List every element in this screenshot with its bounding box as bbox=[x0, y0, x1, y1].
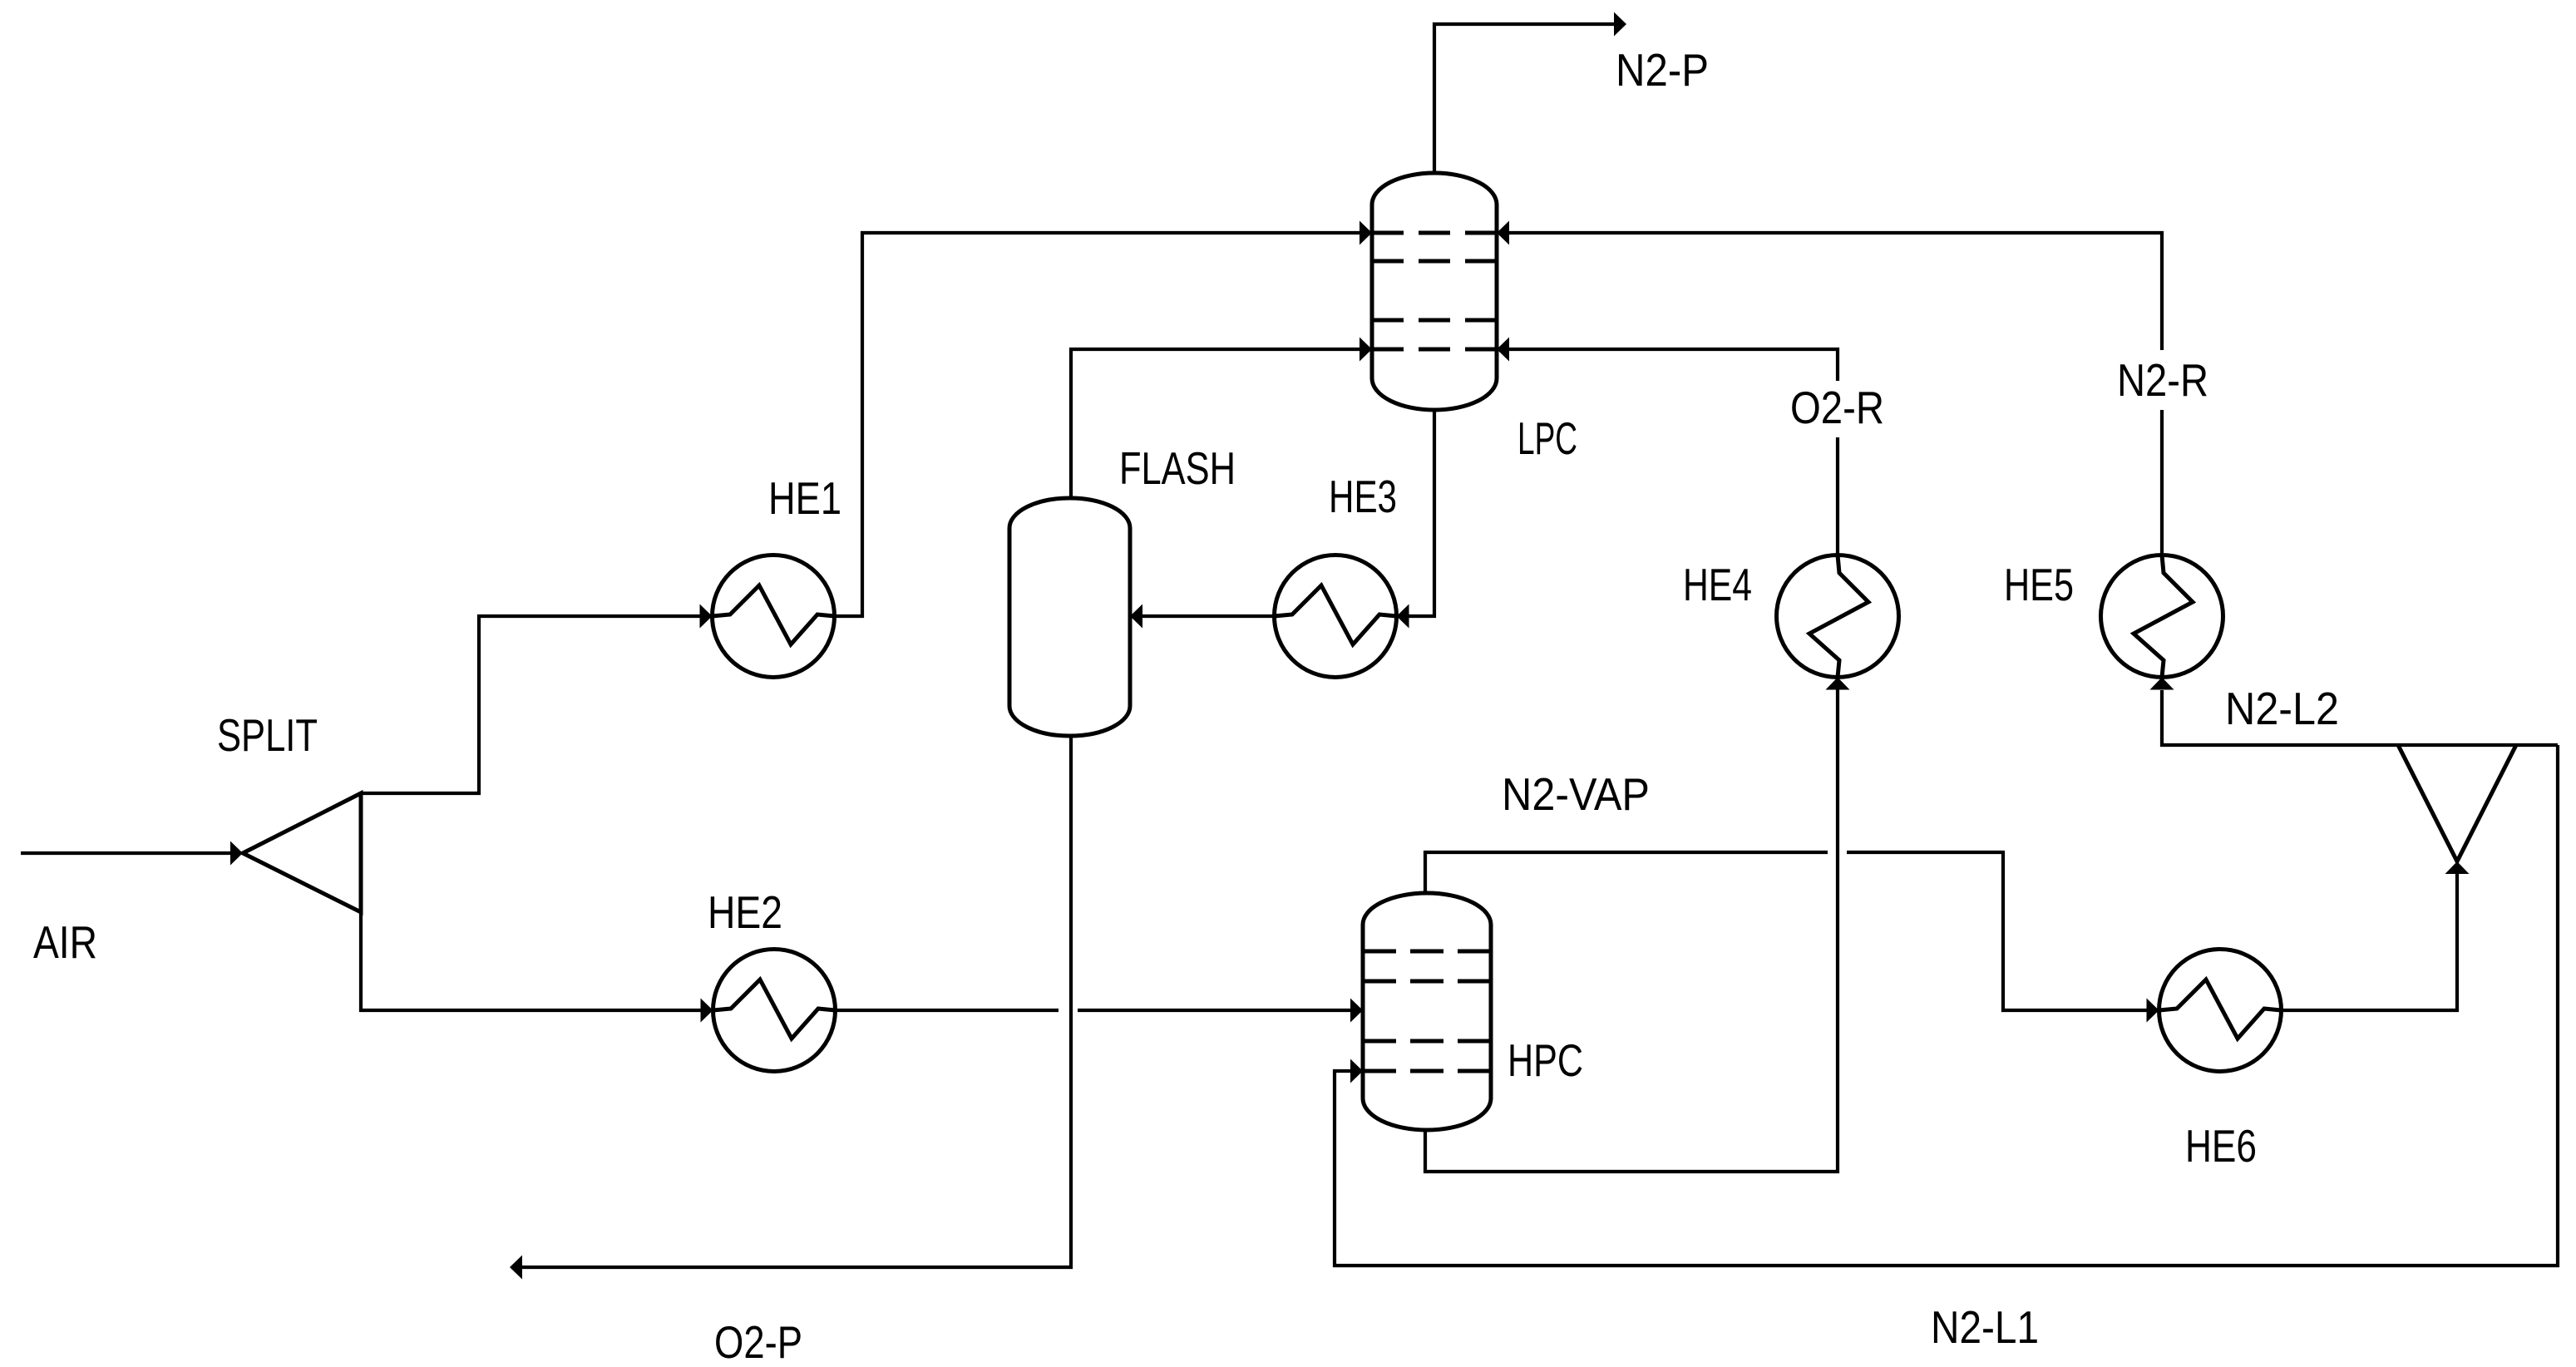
wire HE6 to valve bbox=[2282, 874, 2458, 1010]
arrow into valve apex bbox=[2445, 861, 2470, 874]
wire HE1 to LPC upper feed bbox=[835, 233, 1360, 616]
trays HPC row4 bbox=[1363, 1069, 1491, 1073]
wire LPC bottom to HE3 bbox=[1409, 410, 1435, 616]
wire FLASH top to LPC lower feed bbox=[1071, 349, 1360, 498]
wire FLASH bottom to O2-P outlet bbox=[522, 736, 1071, 1267]
arrow into LPC right row4 bbox=[1497, 338, 1509, 362]
svg-text:LPC: LPC bbox=[1517, 412, 1577, 464]
svg-text:HE1: HE1 bbox=[768, 472, 841, 524]
arrow into HPC left mid bbox=[1350, 999, 1363, 1023]
wire N2-L1 from valve down and to HPC lower feed bbox=[1335, 745, 2558, 1266]
trays LPC row4 bbox=[1372, 348, 1497, 352]
svg-text:HE3: HE3 bbox=[1329, 471, 1397, 522]
arrow into FLASH right bbox=[1130, 605, 1142, 629]
trays LPC row1 bbox=[1372, 231, 1497, 235]
svg-text:HE2: HE2 bbox=[708, 886, 782, 938]
heat exchanger HE1 bbox=[713, 555, 835, 678]
arrow into HE3 right bbox=[1397, 605, 1409, 629]
svg-text:FLASH: FLASH bbox=[1119, 442, 1236, 494]
vessel FLASH bbox=[1009, 498, 1130, 736]
arrow into HPC row4 bbox=[1350, 1059, 1363, 1083]
arrow into SPLIT bbox=[230, 841, 243, 866]
heat exchanger HE2 bbox=[713, 950, 836, 1072]
arrow into HE5 bottom bbox=[2150, 678, 2174, 690]
wire SPLIT top branch to HE1 bbox=[361, 616, 700, 793]
arrow into HE1 bbox=[700, 605, 713, 629]
trays HPC row3 bbox=[1363, 1039, 1491, 1044]
heat exchanger HE5 bbox=[2101, 555, 2223, 678]
svg-text:N2-L1: N2-L1 bbox=[1931, 1301, 2039, 1353]
arrow into HE4 bottom bbox=[1826, 678, 1850, 690]
svg-text:SPLIT: SPLIT bbox=[217, 709, 318, 761]
wire HPC bottom to HE4 (O2 reboil) bbox=[1425, 690, 1838, 1172]
arrow into HE6 bbox=[2147, 999, 2159, 1023]
trays LPC row3 bbox=[1372, 318, 1497, 323]
trays LPC row2 bbox=[1372, 259, 1497, 264]
trays HPC row2 bbox=[1363, 980, 1491, 984]
splitter SPLIT bbox=[243, 793, 361, 912]
wire HE2 to HPC feed (gap at O2-P line crossing) bbox=[836, 1009, 1351, 1012]
wire HE3 to FLASH bbox=[1142, 614, 1275, 618]
svg-text:O2-R: O2-R bbox=[1790, 382, 1884, 433]
wire LPC top to N2-P outlet bbox=[1434, 24, 1614, 173]
arrow into HE2 bbox=[701, 999, 713, 1023]
heat exchanger HE6 bbox=[2159, 950, 2282, 1072]
arrow into LPC right row1 bbox=[1497, 221, 1509, 245]
arrow into LPC left row1 bbox=[1360, 221, 1372, 245]
svg-text:HE4: HE4 bbox=[1683, 559, 1752, 610]
svg-text:HE5: HE5 bbox=[2004, 559, 2074, 610]
wire HPC top N2-VAP to HE6 (gap at O2-R crossing) bbox=[1425, 852, 2147, 1010]
trays HPC row1 bbox=[1363, 950, 1491, 954]
svg-text:N2-P: N2-P bbox=[1616, 44, 1709, 96]
wire SPLIT bottom branch to HE2 bbox=[361, 912, 701, 1010]
svg-text:HPC: HPC bbox=[1508, 1034, 1583, 1086]
valve funnel bbox=[2398, 745, 2516, 861]
heat exchanger HE4 bbox=[1777, 555, 1899, 678]
svg-text:N2-VAP: N2-VAP bbox=[1502, 768, 1650, 820]
svg-text:O2-P: O2-P bbox=[714, 1316, 802, 1367]
column HPC bbox=[1363, 893, 1491, 1130]
svg-text:AIR: AIR bbox=[33, 916, 97, 968]
arrow into LPC left row4 bbox=[1360, 338, 1372, 362]
svg-text:HE6: HE6 bbox=[2185, 1120, 2257, 1172]
heat exchanger HE3 bbox=[1275, 555, 1397, 678]
wire HE5 top N2-R to LPC right row1 (label gap) bbox=[1509, 233, 2162, 555]
wire N2-L2 from valve line to HE5 bbox=[2162, 690, 2558, 745]
arrow N2-P outlet bbox=[1614, 12, 1626, 37]
column LPC bbox=[1372, 173, 1497, 410]
wire AIR inlet bbox=[21, 851, 230, 855]
svg-text:N2-R: N2-R bbox=[2117, 354, 2208, 406]
arrow O2-P outlet bbox=[510, 1256, 522, 1280]
wire HE4 top O2-R to LPC right row4 (label gap) bbox=[1509, 349, 1838, 555]
svg-text:N2-L2: N2-L2 bbox=[2225, 683, 2339, 734]
